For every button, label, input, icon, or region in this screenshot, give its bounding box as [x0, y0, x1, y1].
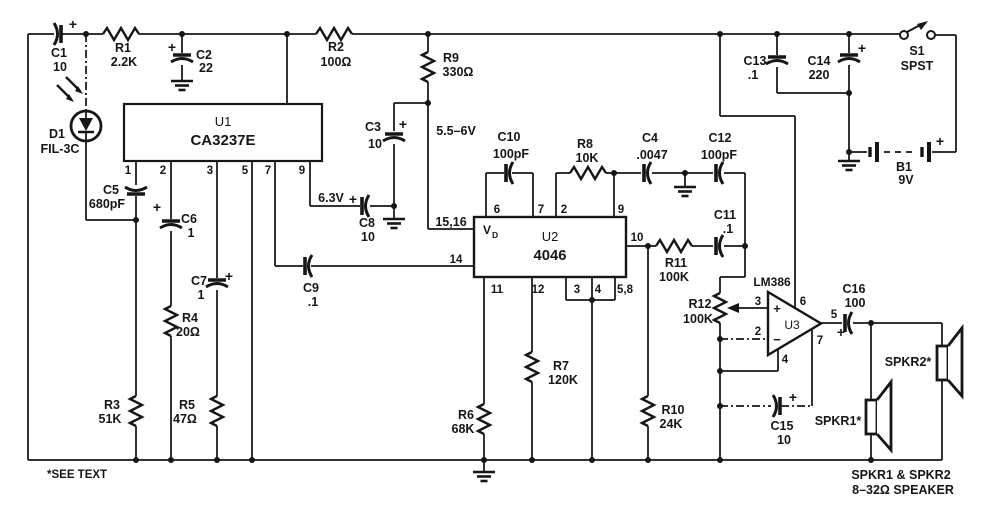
- svg-text:2: 2: [561, 204, 567, 216]
- wire C10 loop: [486, 173, 533, 217]
- svg-text:9V: 9V: [898, 173, 914, 187]
- resistor R7: [526, 352, 578, 387]
- switch S1: [900, 21, 935, 73]
- pin 9 U2: [618, 204, 624, 216]
- svg-text:+: +: [153, 199, 161, 215]
- wire top supply bus: [28, 33, 900, 35]
- node SPKR1 bus: [868, 457, 874, 463]
- wire pins 3-4-5-8 tie: [566, 277, 615, 460]
- svg-text:FIL-3C: FIL-3C: [41, 142, 80, 156]
- label D1: [49, 127, 65, 141]
- svg-text:R1: R1: [115, 41, 131, 55]
- pin 3 U1: [207, 165, 213, 177]
- ground main: [473, 460, 495, 481]
- wire pin6 supply: [720, 34, 795, 308]
- svg-text:330Ω: 330Ω: [443, 65, 474, 79]
- capacitor C15: [771, 389, 798, 447]
- label SPKR1: [815, 414, 862, 428]
- pin 10 U2: [631, 232, 644, 244]
- svg-text:+: +: [225, 268, 233, 284]
- svg-text:100pF: 100pF: [701, 148, 737, 162]
- wire feedback down: [720, 246, 745, 293]
- resistor R4: [165, 306, 200, 339]
- node C13 tap: [774, 31, 780, 37]
- svg-text:D: D: [492, 230, 498, 240]
- svg-text:10: 10: [631, 232, 644, 244]
- node R9 tap: [425, 31, 431, 37]
- pin 6 U2: [494, 204, 500, 216]
- svg-text:10: 10: [361, 230, 375, 244]
- wire battery to switch: [935, 35, 956, 152]
- label speaker note: [851, 468, 954, 497]
- svg-text:U3: U3: [784, 318, 800, 332]
- svg-text:R10: R10: [662, 403, 685, 417]
- node C2 tap: [179, 31, 185, 37]
- wire C4 to ground node: [652, 172, 713, 174]
- svg-text:100Ω: 100Ω: [321, 55, 352, 69]
- svg-text:SPST: SPST: [901, 59, 934, 73]
- svg-text:10: 10: [53, 60, 67, 74]
- node R8-C4 junction: [611, 170, 617, 176]
- pin 4 U2: [595, 284, 602, 296]
- svg-text:3: 3: [207, 165, 213, 177]
- node R9-C3 junction: [425, 100, 431, 106]
- node C15 tap: [717, 403, 723, 409]
- svg-text:5.5–6V: 5.5–6V: [436, 124, 476, 138]
- svg-text:C1: C1: [51, 46, 67, 60]
- resistor R1: [103, 28, 139, 69]
- wire pin7 to C9: [275, 161, 474, 266]
- svg-text:22: 22: [199, 61, 213, 75]
- wire to C4: [614, 172, 641, 174]
- wire pin10 out: [626, 245, 648, 247]
- wire C15 left dash: [720, 405, 771, 407]
- node pin2 bus: [168, 457, 174, 463]
- svg-text:100pF: 100pF: [493, 147, 529, 161]
- node R6 bus: [481, 457, 487, 463]
- svg-text:4: 4: [782, 354, 789, 366]
- node pin3 bus: [214, 457, 220, 463]
- svg-text:4: 4: [595, 284, 602, 296]
- svg-text:5,8: 5,8: [617, 284, 634, 296]
- wire R9 to C3: [394, 102, 428, 104]
- svg-text:15,16: 15,16: [435, 215, 466, 229]
- wire to SPKR2: [871, 323, 942, 460]
- node pin5 bus: [249, 457, 255, 463]
- svg-text:R3: R3: [104, 398, 120, 412]
- pin 12 U2: [532, 284, 545, 296]
- svg-text:C6: C6: [181, 212, 197, 226]
- capacitor C2: [168, 34, 213, 80]
- pin 7 U1: [265, 165, 271, 177]
- wire D1 light path drop: [85, 34, 87, 111]
- svg-text:C15: C15: [771, 419, 794, 433]
- svg-text:+: +: [69, 16, 77, 32]
- node R7 bus: [529, 457, 535, 463]
- node C3-C8 junction: [391, 203, 397, 209]
- svg-text:C3: C3: [365, 120, 381, 134]
- svg-text:10: 10: [777, 433, 791, 447]
- svg-text:C8: C8: [359, 216, 375, 230]
- node C5-D1 junction: [133, 217, 139, 223]
- node C1-D1 junction: [83, 31, 89, 37]
- svg-text:+: +: [837, 324, 845, 340]
- svg-text:C13: C13: [744, 54, 767, 68]
- pin 3 U2: [574, 284, 580, 296]
- capacitor C10: [493, 130, 529, 184]
- pin 9 U1: [299, 165, 305, 177]
- capacitor C11: [714, 208, 736, 257]
- node R12 bus: [717, 457, 723, 463]
- label pins 15,16: [435, 215, 466, 229]
- svg-text:D1: D1: [49, 127, 65, 141]
- svg-text:+: +: [789, 389, 797, 405]
- pin 11 U2: [491, 284, 504, 296]
- svg-text:1: 1: [188, 226, 195, 240]
- svg-text:+: +: [349, 191, 357, 207]
- svg-text:2: 2: [755, 326, 761, 338]
- wire R6 chain: [483, 277, 485, 460]
- svg-text:2: 2: [160, 165, 166, 177]
- node C14 top tap: [846, 31, 852, 37]
- svg-text:+: +: [168, 39, 176, 55]
- svg-text:3: 3: [755, 296, 761, 308]
- svg-text:CA3237E: CA3237E: [190, 132, 255, 149]
- ground at C4: [674, 173, 696, 196]
- wire R8 net: [556, 173, 614, 217]
- wire left edge rail: [27, 34, 29, 460]
- label see text: [47, 469, 107, 481]
- capacitor C8: [359, 195, 394, 244]
- svg-text:U2: U2: [542, 229, 559, 244]
- wire C15 right to pin7: [781, 330, 812, 406]
- wire C14 to battery node: [848, 93, 850, 152]
- svg-text:1: 1: [125, 165, 132, 177]
- svg-text:10K: 10K: [576, 151, 599, 165]
- svg-text:R6: R6: [458, 408, 474, 422]
- svg-text:2.2K: 2.2K: [111, 55, 137, 69]
- svg-text:+: +: [936, 133, 944, 149]
- node pin10 junction: [645, 243, 651, 249]
- ground at battery: [838, 152, 860, 170]
- svg-text:SPKR1*: SPKR1*: [815, 414, 862, 428]
- svg-text:4046: 4046: [534, 248, 567, 264]
- label FIL-3C: [41, 142, 80, 156]
- svg-text:9: 9: [299, 165, 305, 177]
- svg-text:47Ω: 47Ω: [173, 412, 197, 426]
- wire U3 output: [821, 322, 842, 324]
- svg-text:+: +: [773, 301, 781, 316]
- capacitor C13: [744, 34, 788, 93]
- svg-text:U1: U1: [215, 114, 232, 129]
- capacitor C14: [808, 34, 867, 93]
- svg-text:R8: R8: [577, 137, 593, 151]
- svg-text:1: 1: [198, 288, 205, 302]
- wire pin4 return: [720, 349, 778, 371]
- svg-text:B1: B1: [896, 160, 912, 174]
- label pin3 U3: [755, 296, 761, 308]
- svg-text:+: +: [858, 40, 866, 56]
- node pin1 bus: [133, 457, 139, 463]
- capacitor C6: [153, 199, 197, 240]
- svg-text:C10: C10: [498, 130, 521, 144]
- node C11-C12 junction: [742, 243, 748, 249]
- svg-text:S1: S1: [909, 44, 924, 58]
- resistor R8: [570, 137, 606, 179]
- wire pin2 chain: [170, 161, 172, 460]
- pin 2 U2: [561, 204, 567, 216]
- svg-text:68K: 68K: [452, 422, 475, 436]
- op-amp U3 LM386 triangle: [768, 292, 821, 355]
- wire to SPKR1: [870, 323, 872, 460]
- wire pin1 chain: [135, 161, 137, 460]
- op-amp U2 4046 box: [474, 217, 626, 277]
- label pin6 U3: [800, 296, 806, 308]
- svg-text:3: 3: [574, 284, 580, 296]
- potentiometer R12: [683, 293, 726, 460]
- pin 5,8 U2: [617, 284, 634, 296]
- speaker SPKR1: [866, 382, 891, 450]
- label LM386: [753, 275, 791, 289]
- svg-text:C7: C7: [191, 274, 207, 288]
- light arrows into D1: [57, 77, 83, 102]
- capacitor C5: [89, 183, 147, 211]
- wire C13-C14 tie: [777, 92, 849, 94]
- svg-text:R7: R7: [553, 359, 569, 373]
- ground below C3: [383, 206, 405, 228]
- node R10 bus: [645, 457, 651, 463]
- capacitor C16: [837, 282, 866, 340]
- svg-text:7: 7: [817, 335, 823, 347]
- wire pin5 chain: [251, 161, 253, 460]
- label SPKR2: [885, 355, 932, 369]
- svg-text:100K: 100K: [683, 312, 713, 326]
- node U1 supply tap: [284, 31, 290, 37]
- svg-text:6: 6: [800, 296, 806, 308]
- svg-text:7: 7: [265, 165, 271, 177]
- pin 7 U2: [538, 204, 544, 216]
- capacitor C12: [701, 131, 737, 184]
- svg-text:680pF: 680pF: [89, 197, 125, 211]
- label 6.3V: [318, 191, 357, 207]
- svg-text:14: 14: [450, 254, 463, 266]
- svg-text:51K: 51K: [99, 412, 122, 426]
- svg-text:12: 12: [532, 284, 545, 296]
- svg-text:C12: C12: [709, 131, 732, 145]
- photodiode D1: [71, 111, 101, 141]
- node pins tie junction: [589, 297, 595, 303]
- capacitor C4: [636, 131, 667, 184]
- node battery junction: [846, 149, 852, 155]
- pin 1 U1: [125, 165, 132, 177]
- node speaker junction: [868, 320, 874, 326]
- svg-text:100: 100: [845, 296, 866, 310]
- svg-text:24K: 24K: [660, 417, 683, 431]
- svg-text:*SEE TEXT: *SEE TEXT: [47, 469, 107, 481]
- pin 5 U1: [242, 165, 249, 177]
- node pin2 tap: [717, 336, 723, 342]
- speaker SPKR2: [937, 328, 962, 396]
- node pin4 tap: [717, 368, 723, 374]
- svg-text:SPKR2*: SPKR2*: [885, 355, 932, 369]
- wire bottom ground bus: [28, 459, 942, 461]
- wire 5.5-6V net: [428, 103, 474, 229]
- svg-text:5: 5: [242, 165, 249, 177]
- svg-text:10: 10: [368, 137, 382, 151]
- svg-text:C9: C9: [303, 281, 319, 295]
- label pin5 U3: [831, 309, 838, 321]
- svg-text:.0047: .0047: [636, 148, 667, 162]
- svg-text:C4: C4: [642, 131, 658, 145]
- svg-text:+: +: [399, 116, 407, 132]
- svg-text:.1: .1: [308, 295, 318, 309]
- svg-text:6.3V: 6.3V: [318, 191, 344, 205]
- wire U1 supply drop: [286, 34, 288, 104]
- pin 2 U1: [160, 165, 166, 177]
- svg-text:20Ω: 20Ω: [176, 325, 200, 339]
- label pin7 U3: [817, 335, 823, 347]
- label pin2 U3: [755, 326, 761, 338]
- svg-text:100K: 100K: [659, 270, 689, 284]
- capacitor C9: [303, 255, 319, 309]
- capacitor C7: [191, 268, 233, 302]
- label pin 14: [450, 254, 463, 266]
- svg-text:C2: C2: [196, 48, 212, 62]
- wire C11 out: [724, 245, 745, 247]
- resistor R9: [422, 34, 473, 103]
- svg-text:220: 220: [809, 68, 830, 82]
- node pin6 tap: [717, 31, 723, 37]
- svg-text:R12: R12: [689, 297, 712, 311]
- svg-text:.1: .1: [723, 222, 733, 236]
- svg-text:6: 6: [494, 204, 500, 216]
- battery B1: [849, 133, 956, 187]
- node tie bus: [589, 457, 595, 463]
- svg-text:R5: R5: [179, 398, 195, 412]
- wire pin2 dash: [720, 338, 768, 340]
- svg-text:R4: R4: [182, 311, 198, 325]
- resistor R5: [173, 396, 223, 426]
- svg-text:.1: .1: [748, 68, 758, 82]
- svg-text:C5: C5: [103, 183, 119, 197]
- wire D1 to C5 node: [86, 141, 136, 220]
- node C14 bottom junction: [846, 90, 852, 96]
- svg-text:9: 9: [618, 204, 624, 216]
- svg-text:V: V: [483, 223, 491, 237]
- resistor R10: [642, 246, 685, 460]
- node C4 ground junction: [682, 170, 688, 176]
- capacitor C3: [365, 103, 407, 206]
- label 5.5-6V: [436, 124, 476, 138]
- R12 wiper arrow: [727, 303, 768, 313]
- wire C12 feedback: [724, 173, 745, 246]
- ground below C2: [171, 81, 193, 90]
- svg-text:C14: C14: [808, 54, 831, 68]
- svg-text:LM386: LM386: [753, 275, 791, 289]
- svg-text:11: 11: [491, 284, 504, 296]
- svg-text:R2: R2: [328, 40, 344, 54]
- svg-text:C11: C11: [714, 208, 736, 222]
- wire R7 chain: [531, 277, 533, 460]
- resistor R2: [316, 28, 352, 69]
- svg-text:120K: 120K: [548, 373, 578, 387]
- svg-text:R11: R11: [665, 256, 687, 270]
- resistor R3: [99, 396, 142, 426]
- svg-text:R9: R9: [443, 51, 459, 65]
- svg-text:5: 5: [831, 309, 838, 321]
- svg-text:C16: C16: [843, 282, 866, 296]
- svg-text:SPKR1 & SPKR2: SPKR1 & SPKR2: [851, 468, 950, 482]
- svg-text:7: 7: [538, 204, 544, 216]
- wire pin3 chain: [216, 161, 218, 460]
- resistor R11: [648, 240, 713, 284]
- svg-text:8–32Ω SPEAKER: 8–32Ω SPEAKER: [852, 483, 954, 497]
- svg-text:−: −: [773, 332, 781, 347]
- wire pin9 U1 drop: [310, 161, 360, 206]
- label pin4 U3: [782, 354, 789, 366]
- resistor R6: [452, 404, 490, 436]
- op-amp U1 CA3237E box: [124, 104, 322, 161]
- wire C16 out: [853, 322, 871, 324]
- capacitor C1: [51, 16, 77, 74]
